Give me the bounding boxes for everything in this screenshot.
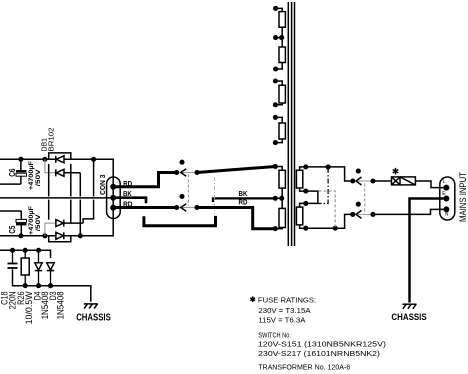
wire PA top to power switch pole A: [306, 167, 353, 181]
diode DB1c (third, pointing right): [56, 220, 83, 227]
ground chassis (left): [84, 304, 98, 309]
svg-text:230V-S217 (16101NRNB5NK2): 230V-S217 (16101NRNB5NK2): [258, 349, 380, 358]
resistor R26: [21, 250, 29, 285]
svg-text:SWITCH No.: SWITCH No.: [258, 330, 291, 339]
capacitor C5: [16, 211, 27, 236]
node bottom rail / D3 junction: [48, 283, 53, 288]
svg-text:BK: BK: [239, 191, 248, 198]
wire stub to DB1c: [45, 223, 56, 236]
svg-text:MAINS INPUT: MAINS INPUT: [458, 172, 468, 222]
winding S1 (secondary top): [276, 8, 286, 37]
node S4 top terminal: [273, 115, 278, 120]
wire rail A (bridge + rail): [0, 159, 113, 236]
CON3 pin 3: [110, 205, 116, 211]
wire PB bottom to power switch pole B: [306, 214, 353, 228]
winding PB (right primary lower): [296, 203, 305, 228]
winding S2: [276, 38, 286, 69]
link (dashed) alternate strap lower: [319, 191, 336, 227]
svg-text:CHASSIS: CHASSIS: [76, 313, 111, 324]
node PA top terminal: [303, 164, 308, 169]
switch S1 linkage: [364, 184, 366, 213]
pin L: [443, 185, 449, 191]
wire stub to DB1b: [45, 159, 56, 173]
node PB top terminal: [303, 201, 308, 206]
svg-text:115V = T6.3A: 115V = T6.3A: [258, 315, 305, 324]
svg-text:1N5408: 1N5408: [55, 291, 66, 319]
switch S2 linkage: [187, 175, 189, 206]
wire C6 bottom to left edge: [0, 183, 21, 185]
wire CON3 pin1 to selector pole A (thick): [113, 173, 177, 187]
bypass loop over DB1a: [49, 153, 71, 159]
node S2 bottom terminal: [273, 66, 278, 71]
node PA bottom terminal: [303, 189, 308, 194]
vertical bridge wires crossing rail B: [49, 159, 94, 236]
node lower rail / D4 junction: [36, 248, 41, 253]
svg-text:N: N: [445, 212, 449, 218]
capacitor C18: [8, 250, 18, 268]
diode DB1a (top, on rail A, pointing left): [56, 156, 64, 163]
wire BK under-cross segment (thick): [144, 216, 216, 226]
node P1 top terminal: [273, 164, 278, 169]
svg-text:120V-S151 (1310NB5NKR125V): 120V-S151 (1310NB5NKR125V): [258, 340, 386, 349]
ground chassis (right): [403, 304, 417, 309]
diode DB1d (bottom, on rail C, pointing right): [56, 232, 64, 239]
switch S2 secondary linkage: [214, 177, 216, 214]
winding S3: [275, 81, 285, 105]
svg-text:L: L: [443, 179, 446, 185]
node rail A / bridge output junction: [91, 157, 96, 162]
wire rail B (center rail): [0, 197, 110, 199]
wire lower rail (to C18 group): [0, 250, 51, 258]
wire selector pole A to P1 top (thick diagonal): [197, 167, 275, 173]
node lower rail / R26 junction: [23, 248, 28, 253]
node rail C / bridge output junction: [78, 233, 83, 238]
winding P1 (left primary upper): [275, 167, 285, 199]
note FUSE RATINGS: [258, 295, 386, 371]
wire power switch pole A to fuse: [373, 180, 392, 182]
node rail A / C6 junction: [18, 157, 23, 162]
wire CON3 pin3 to selector pole B (thick): [113, 206, 177, 209]
node bottom rail / D4 junction: [36, 283, 41, 288]
wire series link PA bottom to PB top: [306, 191, 318, 203]
node rail A / bridge anode junction: [42, 157, 47, 162]
pin N: [443, 206, 449, 212]
switch S2 pole A (voltage selector): [174, 160, 199, 177]
node rail C / C5 junction: [18, 233, 23, 238]
node P1/P2 center tap terminals: [273, 196, 278, 201]
wire CON3 pin2 BK stub (thick): [113, 198, 146, 204]
svg-text:/50V: /50V: [35, 213, 42, 231]
node S1 top terminal: [273, 6, 278, 11]
wire fuse to mains pin L: [415, 181, 443, 188]
wire bottom rail to chassis: [13, 269, 91, 302]
diode D3: [47, 263, 54, 286]
connector J1 MAINS INPUT: [440, 177, 455, 220]
node S1/S2 junction terminals: [273, 35, 278, 40]
node tap on PB bottom wire: [333, 226, 338, 231]
wire mains pin N to power switch pole B: [373, 209, 444, 214]
CON3 pin 1: [110, 184, 116, 190]
svg-text:C5: C5: [8, 225, 17, 234]
winding P2 (left primary lower): [275, 198, 285, 228]
switch S1 pole B (power switch): [350, 202, 375, 219]
switch S2 pole B (voltage selector): [174, 194, 199, 211]
svg-text:CON 3: CON 3: [100, 174, 107, 195]
svg-text:BR102: BR102: [47, 128, 56, 152]
node S3 top terminal: [273, 78, 278, 83]
svg-text:FUSE RATINGS:: FUSE RATINGS:: [258, 295, 316, 304]
node S4 bottom terminal: [273, 140, 278, 145]
wire from rail A junction down-around to lower diode: [83, 200, 94, 224]
wire BK to center tap: [213, 198, 275, 202]
diode D4: [35, 250, 42, 285]
bypass loop under DB1d: [49, 236, 71, 242]
wire earth pin E to chassis (thick): [410, 199, 444, 303]
pin E: [443, 196, 449, 202]
CON3 pin 2: [110, 195, 116, 201]
svg-text:C6: C6: [8, 168, 17, 177]
switch S1 pole A (power switch): [350, 169, 375, 185]
svg-text:230V = T3.15A: 230V = T3.15A: [258, 306, 310, 315]
node lower rail / C18 junction: [10, 248, 15, 253]
winding S4: [275, 117, 285, 142]
fuse F1: [392, 177, 416, 185]
fuse asterisk marker: [393, 168, 399, 175]
node PB bottom terminal: [303, 226, 308, 231]
link (dash-dot) alternate strap upper: [319, 168, 329, 204]
transformer T1 core: [288, 2, 294, 246]
node bottom rail / R26 junction: [23, 283, 28, 288]
winding PA (right primary upper): [296, 167, 305, 191]
diode DB1b (second, pointing left): [56, 169, 81, 176]
node rail C / bridge anode junction: [42, 233, 47, 238]
node P2 bottom terminal: [273, 226, 278, 231]
svg-text:RD: RD: [239, 200, 248, 207]
node S3 bottom terminal: [273, 102, 278, 107]
node tap on PA top wire: [326, 164, 331, 169]
wire selector pole B to P2 bottom RD (thick): [197, 208, 275, 229]
svg-text:TRANSFORMER No. 120A-6: TRANSFORMER No. 120A-6: [258, 362, 350, 371]
note FUSE RATINGS asterisk: [250, 296, 255, 302]
wire C5 top to left edge: [0, 210, 21, 212]
svg-text:/50V: /50V: [35, 168, 42, 186]
capacitor C6: [16, 159, 27, 184]
svg-text:CHASSIS: CHASSIS: [391, 312, 427, 323]
connector CON3: [107, 177, 121, 219]
